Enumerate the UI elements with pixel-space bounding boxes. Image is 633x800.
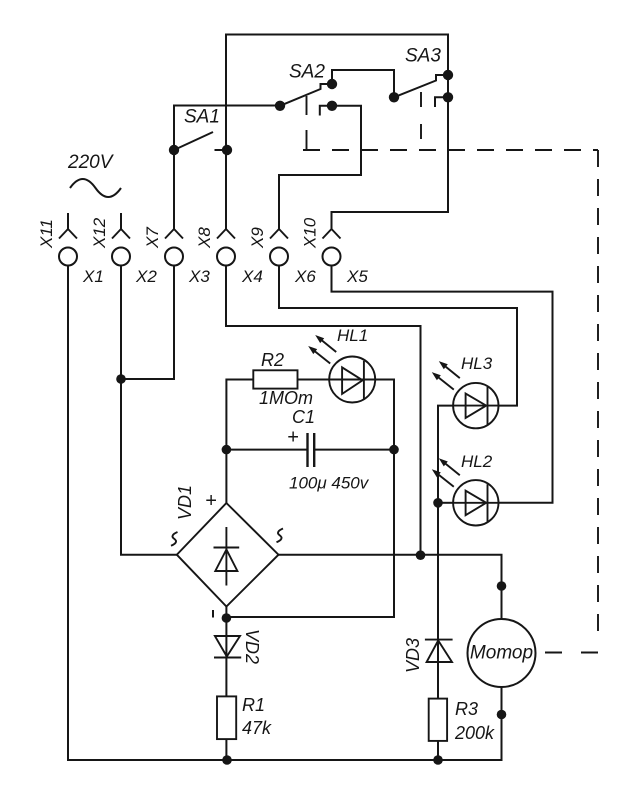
svg-text:X6: X6 [294, 267, 316, 286]
svg-text:R2: R2 [261, 350, 284, 370]
svg-text:X1: X1 [82, 267, 104, 286]
svg-text:+: + [287, 427, 299, 449]
svg-text:Мотор: Мотор [470, 643, 533, 664]
svg-text:VD3: VD3 [403, 638, 423, 673]
svg-text:X12: X12 [90, 217, 109, 249]
svg-text:1MOm: 1MOm [259, 388, 313, 408]
svg-text:X7: X7 [143, 227, 162, 249]
svg-text:X11: X11 [37, 219, 56, 249]
svg-text:HL1: HL1 [337, 326, 368, 345]
svg-text:HL3: HL3 [461, 354, 493, 373]
svg-text:C1: C1 [292, 407, 315, 427]
svg-text:200k: 200k [454, 723, 495, 743]
svg-text:220V: 220V [67, 152, 115, 173]
svg-text:R1: R1 [242, 695, 265, 715]
svg-text:X2: X2 [135, 267, 157, 286]
svg-text:R3: R3 [455, 699, 478, 719]
svg-text:X4: X4 [241, 267, 263, 286]
svg-text:SA1: SA1 [184, 107, 220, 128]
svg-text:VD1: VD1 [175, 485, 195, 520]
svg-text:X10: X10 [301, 217, 320, 249]
svg-text:100μ 450v: 100μ 450v [289, 474, 370, 493]
svg-text:X3: X3 [188, 267, 210, 286]
svg-text:X9: X9 [248, 227, 267, 249]
svg-text:HL2: HL2 [461, 452, 493, 471]
svg-text:X8: X8 [195, 227, 214, 249]
svg-text:47k: 47k [242, 718, 272, 738]
svg-text:SA3: SA3 [405, 46, 441, 67]
svg-text:+: + [205, 490, 217, 512]
svg-text:VD2: VD2 [242, 629, 262, 664]
svg-text:X5: X5 [346, 267, 368, 286]
svg-text:SA2: SA2 [289, 62, 325, 83]
